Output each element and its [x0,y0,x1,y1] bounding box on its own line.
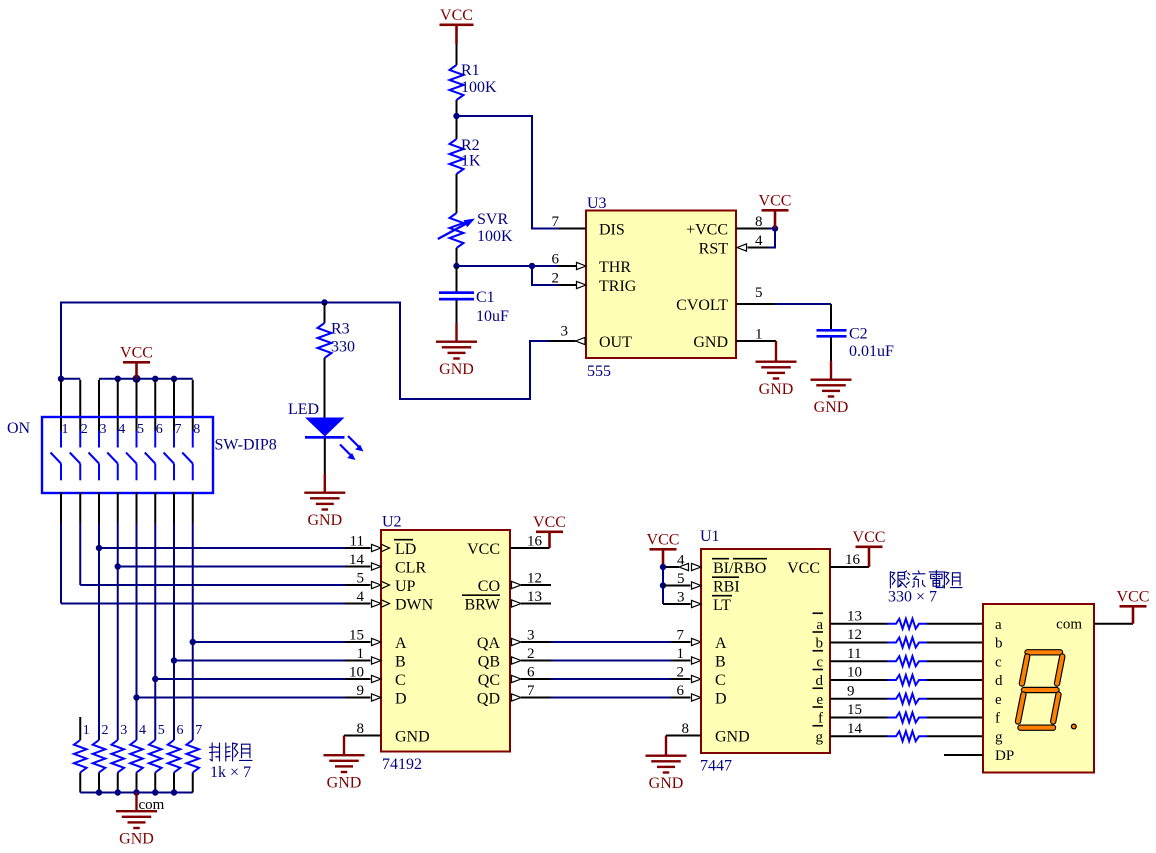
svg-text:QB: QB [478,653,500,670]
svg-text:5: 5 [158,723,165,738]
svg-text:3: 3 [561,324,569,340]
svg-text:g: g [995,729,1003,745]
svg-text:2: 2 [527,646,535,662]
svg-text:e: e [995,692,1002,708]
svg-text:7: 7 [195,723,202,738]
svg-text:CO: CO [478,578,500,595]
svg-text:SW-DIP8: SW-DIP8 [215,437,277,454]
svg-text:555: 555 [587,363,611,380]
svg-text:DP: DP [995,748,1014,764]
svg-text:ON: ON [7,420,31,437]
svg-text:7: 7 [677,628,685,644]
svg-text:f: f [818,711,823,727]
svg-text:2: 2 [81,422,88,437]
svg-text:14: 14 [349,552,365,568]
svg-text:TRIG: TRIG [599,278,637,295]
svg-text:6: 6 [527,665,535,681]
svg-text:0.01uF: 0.01uF [849,343,894,360]
svg-text:4: 4 [118,422,125,437]
svg-text:10: 10 [349,665,364,681]
svg-text:74192: 74192 [382,756,422,773]
svg-text:7: 7 [175,422,182,437]
svg-text:e: e [816,692,823,708]
svg-text:A: A [715,635,727,652]
svg-text:VCC: VCC [120,345,153,362]
svg-text:D: D [395,690,407,707]
svg-text:CLR: CLR [395,559,426,576]
svg-text:BRW: BRW [464,596,500,613]
svg-text:10uF: 10uF [476,308,509,325]
svg-text:1: 1 [755,327,763,343]
svg-text:VCC: VCC [1117,589,1150,606]
svg-text:2: 2 [102,723,109,738]
svg-text:6: 6 [677,683,685,699]
svg-text:QD: QD [477,690,500,707]
svg-text:3: 3 [100,422,107,437]
svg-text:1: 1 [62,422,69,437]
svg-text:DIS: DIS [599,221,625,238]
svg-text:CVOLT: CVOLT [676,297,728,314]
svg-text:100K: 100K [477,228,513,245]
svg-text:6: 6 [177,723,184,738]
svg-text:d: d [995,673,1003,689]
svg-text:9: 9 [847,683,855,699]
svg-text:LED: LED [288,401,319,418]
svg-text:GND: GND [759,381,794,398]
svg-text:8: 8 [755,214,763,230]
svg-text:QA: QA [477,635,501,652]
svg-text:8: 8 [193,422,200,437]
svg-text:GND: GND [395,728,430,745]
svg-text:f: f [995,711,1000,727]
svg-text:GND: GND [715,728,750,745]
svg-text:11: 11 [847,646,861,662]
svg-text:BI/RBO: BI/RBO [713,560,766,577]
svg-text:15: 15 [847,702,862,718]
svg-text:6: 6 [156,422,163,437]
svg-text:5: 5 [755,285,763,301]
svg-text:VCC: VCC [853,529,886,546]
svg-text:g: g [816,729,824,745]
svg-text:c: c [995,654,1002,670]
svg-text:DWN: DWN [395,596,434,613]
svg-text:1: 1 [357,646,365,662]
svg-text:7447: 7447 [700,758,732,775]
svg-text:4: 4 [357,589,365,605]
svg-text:GND: GND [814,399,849,416]
svg-text:2: 2 [552,271,560,287]
svg-text:4: 4 [139,723,146,738]
svg-text:C1: C1 [476,289,495,306]
svg-text:5: 5 [137,422,144,437]
svg-text:VCC: VCC [787,560,820,577]
svg-text:U2: U2 [382,514,402,531]
svg-text:GND: GND [327,775,362,792]
svg-text:7: 7 [527,683,535,699]
svg-text:LD: LD [395,541,416,558]
svg-text:330 × 7: 330 × 7 [888,589,937,606]
svg-text:OUT: OUT [599,334,632,351]
svg-text:THR: THR [599,259,631,276]
svg-text:A: A [395,635,407,652]
svg-text:GND: GND [693,334,728,351]
svg-text:GND: GND [307,512,342,529]
svg-text:VCC: VCC [647,532,680,549]
svg-text:1k × 7: 1k × 7 [210,764,251,781]
svg-text:16: 16 [845,552,861,568]
svg-text:RST: RST [699,240,729,257]
svg-text:C: C [395,672,406,689]
svg-text:B: B [715,653,726,670]
svg-text:5: 5 [357,571,365,587]
svg-text:12: 12 [847,627,862,643]
svg-text:15: 15 [349,628,364,644]
svg-text:100K: 100K [461,79,497,96]
svg-text:16: 16 [527,534,543,550]
svg-text:GND: GND [439,361,474,378]
svg-text:GND: GND [649,775,684,792]
svg-text:b: b [995,636,1003,652]
svg-text:10: 10 [847,665,862,681]
svg-text:GND: GND [119,831,154,848]
svg-text:3: 3 [120,723,127,738]
svg-text:11: 11 [350,534,364,550]
svg-text:8: 8 [357,721,365,737]
svg-text:SVR: SVR [477,211,508,228]
svg-text:a: a [816,617,823,633]
svg-text:4: 4 [755,233,763,249]
svg-text:+VCC: +VCC [686,221,728,238]
svg-text:3: 3 [677,590,685,606]
svg-text:9: 9 [357,683,365,699]
svg-text:VCC: VCC [467,541,500,558]
svg-text:C: C [715,672,726,689]
svg-text:14: 14 [847,721,863,737]
svg-text:VCC: VCC [440,7,473,24]
svg-text:d: d [816,673,824,689]
svg-text:B: B [395,653,406,670]
svg-text:RBI: RBI [713,578,740,595]
svg-text:com: com [1056,617,1082,633]
svg-text:1: 1 [83,723,90,738]
svg-text:LT: LT [713,597,731,614]
svg-text:VCC: VCC [533,514,566,531]
svg-text:1: 1 [677,646,685,662]
svg-text:2: 2 [677,665,685,681]
svg-text:UP: UP [395,578,416,595]
svg-text:8: 8 [682,721,690,737]
svg-text:3: 3 [527,628,535,644]
svg-text:5: 5 [677,571,685,587]
svg-text:VCC: VCC [759,193,792,210]
svg-text:6: 6 [552,252,560,268]
svg-text:c: c [816,654,823,670]
svg-text:U1: U1 [700,528,720,545]
svg-text:b: b [816,636,824,652]
svg-text:a: a [995,617,1002,633]
svg-text:R3: R3 [331,321,350,338]
svg-text:4: 4 [677,553,685,569]
svg-text:13: 13 [847,608,862,624]
svg-text:13: 13 [527,589,542,605]
svg-text:C2: C2 [849,326,868,343]
svg-text:U3: U3 [587,195,607,212]
svg-text:R1: R1 [461,62,480,79]
svg-text:330: 330 [331,339,355,356]
svg-text:12: 12 [527,571,542,587]
svg-text:7: 7 [552,214,560,230]
svg-text:1K: 1K [461,153,481,170]
svg-text:D: D [715,690,727,707]
svg-text:QC: QC [478,672,500,689]
svg-text:R2: R2 [461,137,480,154]
